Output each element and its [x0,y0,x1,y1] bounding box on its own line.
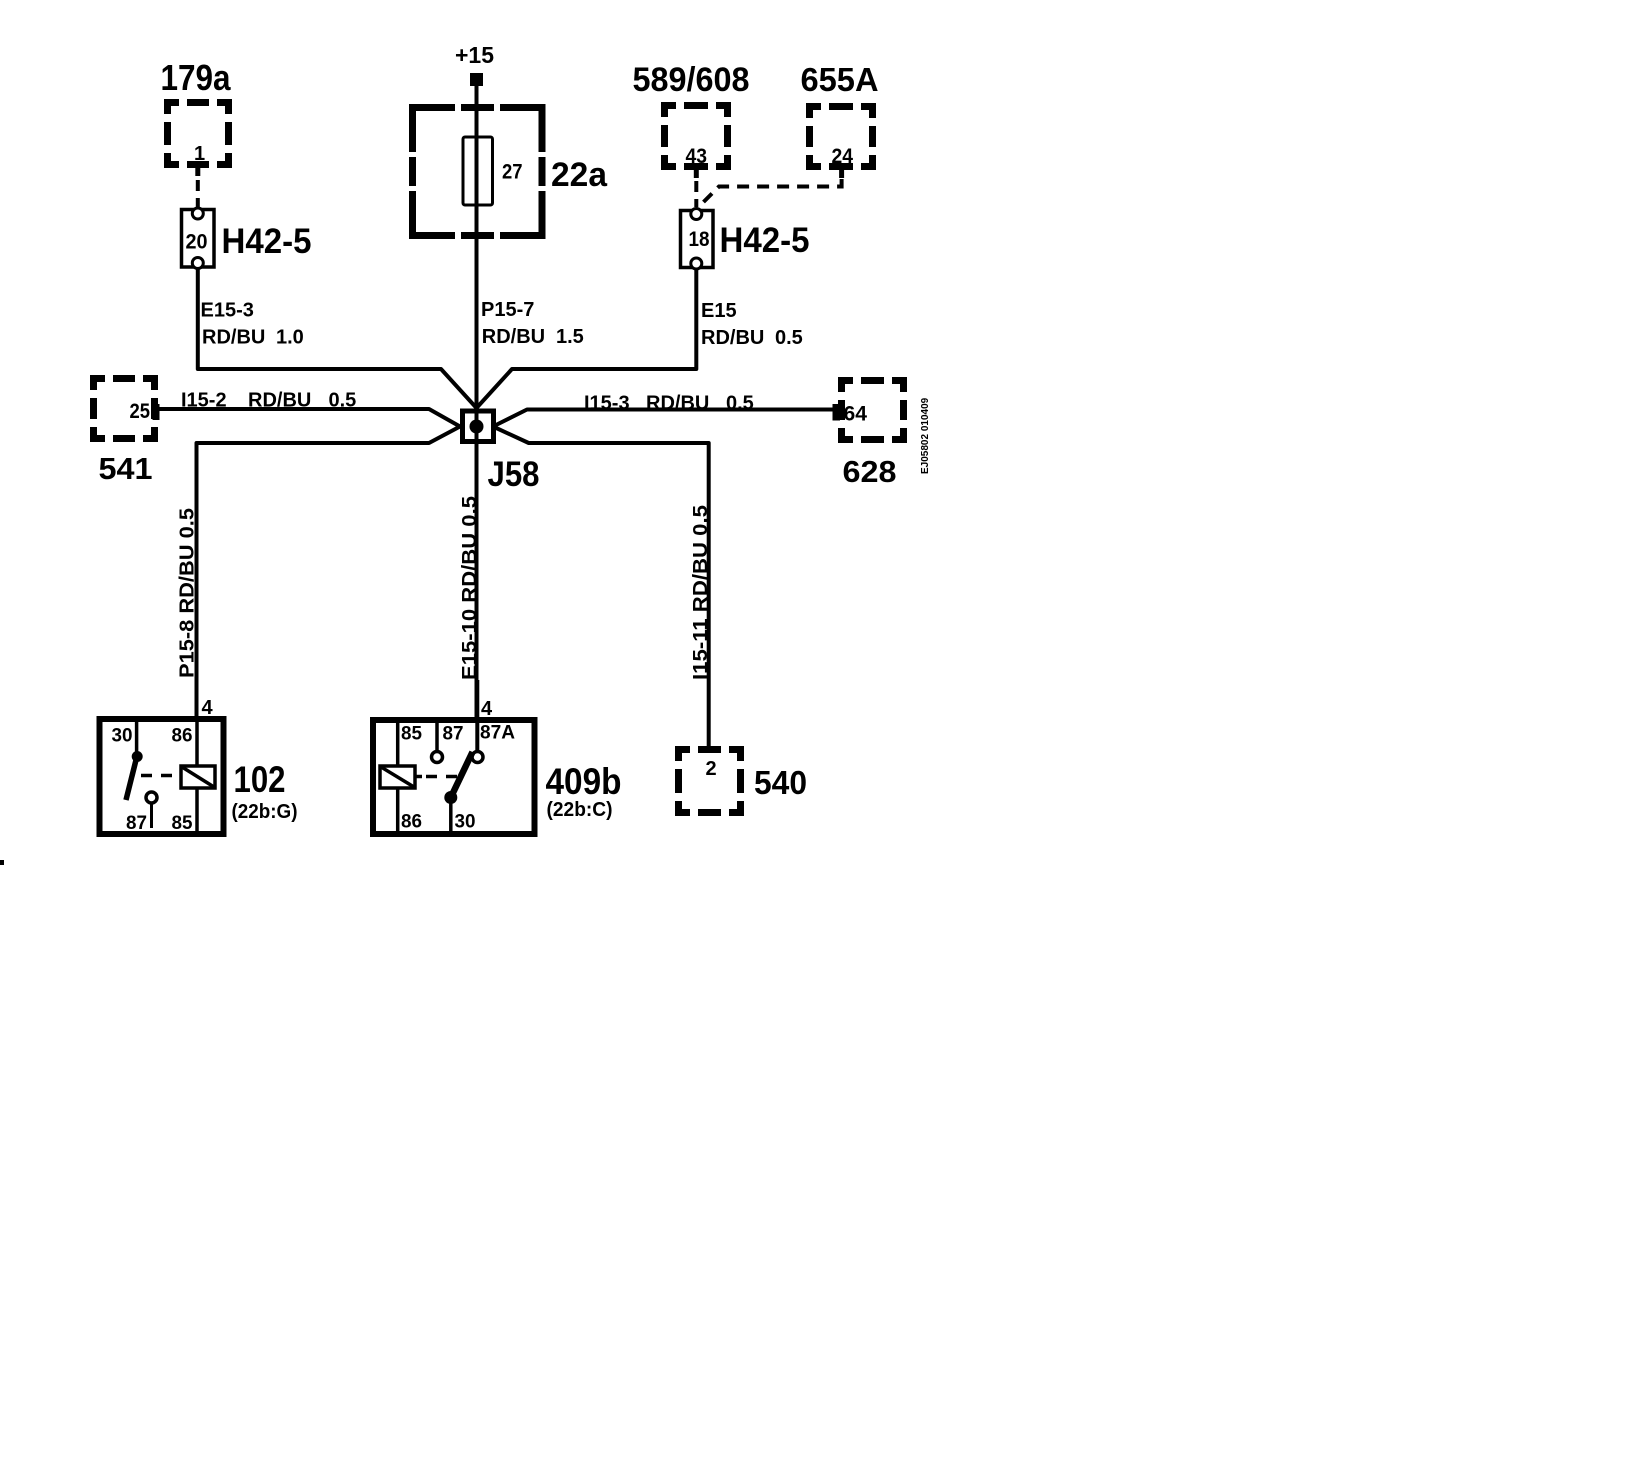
svg-text:1.0: 1.0 [276,327,304,349]
fuse box 22a dashed border [409,104,546,239]
svg-text:86: 86 [401,812,422,833]
wire from +15 to fuse box [475,86,479,107]
pin circle bottom (H42-5 left) [192,258,203,269]
relay 102 switch pivot dot [132,751,143,762]
svg-text:4: 4 [481,698,493,720]
wire I15-3 from junction to 628 [493,410,833,427]
relay 102 contact circle pin 87 [146,792,157,803]
svg-text:1: 1 [194,143,205,165]
relay 409b contact circle pin 87 [432,752,443,763]
wire through junction down to relay 409b [475,411,479,717]
relay 409b box [373,720,535,834]
power feed +15 terminal square [470,73,483,86]
svg-text:I15-2: I15-2 [181,390,227,412]
relay 102 pin 87 wire [150,803,153,828]
pin circle top (H42-5 right) [691,209,702,220]
svg-text:1.5: 1.5 [556,326,584,348]
svg-text:540: 540 [754,764,807,801]
wire from junction down-right to 540 [493,427,709,751]
svg-text:I15-11 RD/BU 0.5: I15-11 RD/BU 0.5 [690,505,712,680]
wire from junction down-left to relay 102 [197,427,461,717]
svg-text:2: 2 [706,758,717,780]
relay 102 pin 86 internal wire to coil [195,716,199,766]
svg-text:87: 87 [443,724,464,745]
relay 102 switch arm [126,758,137,800]
dashed wire 179a to H42-5 [196,180,200,207]
relay 409b coil diagonal [381,767,414,787]
svg-text:43: 43 [686,145,708,168]
connector 541 dashed box [90,375,158,442]
svg-text:RD/BU: RD/BU [646,393,709,415]
svg-text:0.5: 0.5 [329,390,357,412]
svg-text:102: 102 [234,759,286,800]
svg-text:E15-10 RD/BU 0.5: E15-10 RD/BU 0.5 [459,496,481,680]
svg-text:EJ05802 010409: EJ05802 010409 [920,397,931,474]
connector 655A dashed box [806,103,876,170]
connector 589/608 dashed box [661,102,731,170]
pin circle bottom (H42-5 right) [691,258,702,269]
relay 409b pin 30 wire [449,798,453,831]
svg-text:RD/BU: RD/BU [248,390,311,412]
svg-text:RD/BU: RD/BU [202,327,265,349]
relay 102 coil to pin 85 wire [195,788,199,831]
dashed wire 655A to H42-5 [698,179,842,208]
connector 540 dashed box [675,746,744,816]
relay 409b pin 87A wire [475,680,479,752]
pin circle top (H42-5 left) [192,208,203,219]
svg-text:H42-5: H42-5 [222,222,312,261]
pin stub below 589/608 [694,166,699,178]
pin tick 628 [833,404,841,421]
svg-text:4: 4 [202,697,214,719]
svg-text:P15-7: P15-7 [481,299,534,321]
svg-text:87: 87 [126,813,147,834]
relay 409b coil [380,766,415,788]
svg-text:22a: 22a [551,156,608,194]
svg-text:+15: +15 [455,42,494,68]
relay 102 actuation dashes [141,774,181,778]
svg-text:541: 541 [99,451,153,486]
connector 179a dashed box [164,99,232,168]
svg-text:179a: 179a [161,57,232,98]
svg-text:(22b:C): (22b:C) [547,799,613,821]
relay 102 coil diagonal [182,767,214,787]
svg-text:E15: E15 [701,300,737,322]
wire through fuse 27 [475,104,479,414]
dashed wire 589/608 to H42-5 [694,181,698,207]
svg-text:85: 85 [401,724,422,745]
relay 409b switch arm [451,752,473,797]
svg-text:27: 27 [502,161,523,184]
relay 409b coil stub [415,775,422,779]
svg-text:0.5: 0.5 [775,327,803,349]
junction J58 square [463,411,494,442]
svg-text:655A: 655A [801,61,879,98]
svg-text:30: 30 [455,812,476,833]
svg-text:25: 25 [130,400,151,423]
svg-text:86: 86 [172,726,193,747]
relay 409b contact circle pin 87A [472,752,483,763]
svg-text:20: 20 [186,231,208,254]
svg-text:24: 24 [832,145,854,168]
svg-text:P15-8 RD/BU 0.5: P15-8 RD/BU 0.5 [177,508,199,678]
pin stub below 655A [839,166,844,178]
svg-text:18: 18 [689,228,710,251]
wire from H42-5 pin 20 down and to junction [198,268,477,408]
svg-text:0.5: 0.5 [726,393,754,415]
connector 628 dashed box [838,377,907,443]
svg-text:RD/BU: RD/BU [482,326,545,348]
svg-text:I15-3: I15-3 [584,393,630,415]
relay 409b switch pivot dot [444,791,457,804]
connector H42-5 pin 20 body [182,210,215,268]
relay 102 pin 30 wire [135,719,139,752]
relay 102 coil [181,766,215,788]
relay 409b coil to pin 86 wire [396,788,400,831]
svg-text:589/608: 589/608 [633,61,750,99]
fuse 27 element [463,137,493,205]
junction J58 dot [470,420,484,434]
svg-text:30: 30 [112,726,133,747]
svg-text:87A: 87A [480,723,515,744]
pin tick 541 [153,404,160,420]
svg-text:628: 628 [843,454,897,489]
svg-text:H42-5: H42-5 [720,221,810,260]
svg-text:RD/BU: RD/BU [701,327,764,349]
wire from H42-5 pin 18 down and to junction [477,268,697,408]
stray mark left edge [0,860,4,865]
relay 409b actuation dashes [426,775,458,779]
svg-text:(22b:G): (22b:G) [232,801,298,823]
svg-text:409b: 409b [546,761,622,802]
svg-text:64: 64 [844,403,868,426]
svg-text:J58: J58 [488,455,540,494]
connector H42-5 pin 18 body [681,211,714,268]
svg-text:E15-3: E15-3 [201,300,254,322]
relay 409b pin 85 wire to coil [396,717,400,766]
pin stub below 179a [195,164,200,176]
relay 102 box [100,719,224,834]
svg-text:85: 85 [172,813,193,834]
wire I15-2 from 541 to junction [158,409,460,427]
relay 409b pin 87 wire [435,717,439,752]
